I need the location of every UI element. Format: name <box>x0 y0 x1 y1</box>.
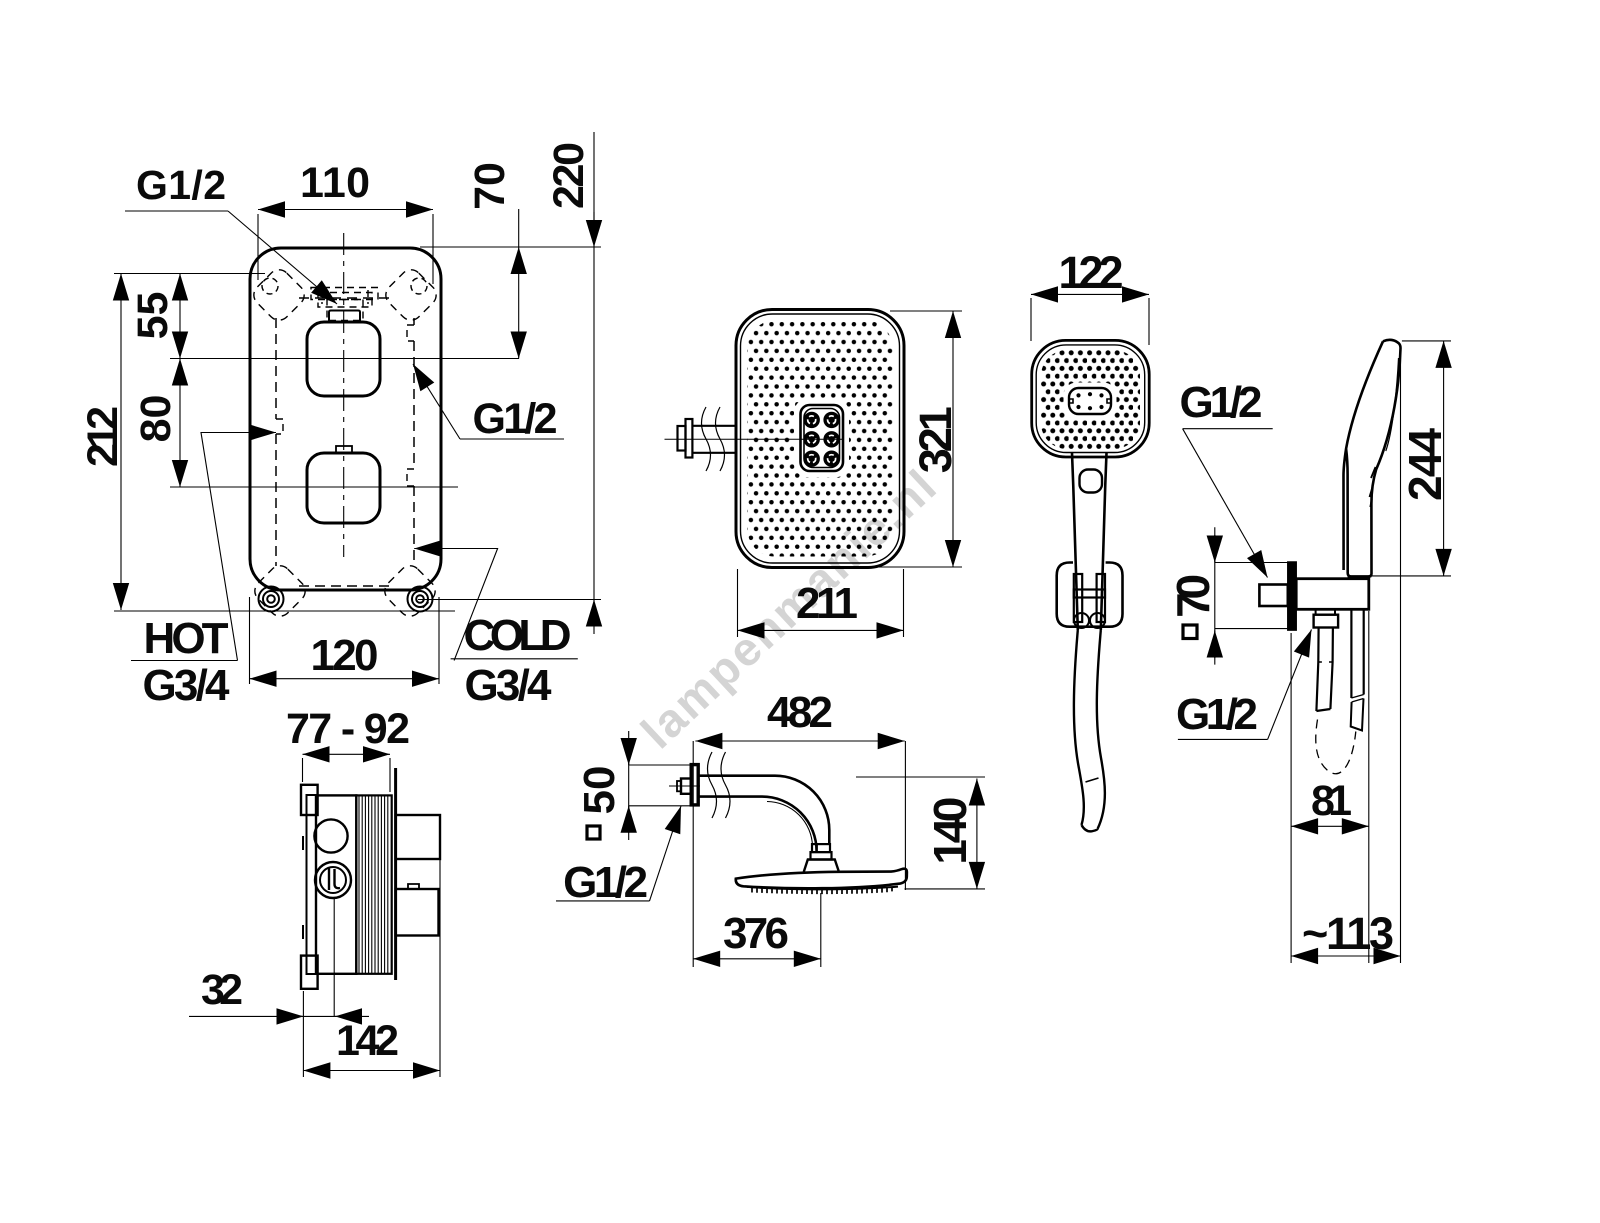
hand shower center plate <box>1069 388 1111 414</box>
wall stem F <box>1259 585 1287 607</box>
connector neck <box>329 311 360 323</box>
in-wall box dashed left edge <box>275 318 277 566</box>
knob 2 (lower) <box>307 453 380 523</box>
underline HOT <box>131 660 238 662</box>
mounting tab bottom <box>301 956 318 989</box>
wall plane line <box>394 768 397 980</box>
stub2 lower <box>1351 699 1364 731</box>
svg-text:211: 211 <box>796 579 858 628</box>
holder bracket <box>1057 563 1123 627</box>
arm nut <box>681 779 691 794</box>
leader G1/2 lower F <box>1178 738 1268 740</box>
knob 1 (upper) <box>307 322 380 396</box>
svg-text:G1/2: G1/2 <box>1176 690 1258 739</box>
svg-text:G1/2: G1/2 <box>473 395 558 443</box>
gusset bottom-right <box>380 561 439 620</box>
stub2 joint <box>1351 695 1363 703</box>
gusset bottom-left <box>250 561 309 620</box>
foot right <box>408 587 433 612</box>
head plate inner line <box>741 314 900 563</box>
dim 321 <box>952 311 954 567</box>
dim 220 <box>593 132 595 612</box>
outlet stub upper <box>396 815 440 859</box>
svg-text:G3/4: G3/4 <box>143 661 231 710</box>
ext line panel bottom right <box>418 599 601 601</box>
valve plate ticks <box>302 836 304 939</box>
handle side view <box>1343 340 1400 577</box>
svg-text:110: 110 <box>300 159 370 207</box>
leader G1/2 upper F <box>1183 428 1273 430</box>
left edge notch <box>276 419 283 434</box>
svg-text:142: 142 <box>336 1017 399 1065</box>
ext 482/376 left <box>692 741 694 967</box>
centerline vertical <box>343 233 345 557</box>
svg-text:COLD: COLD <box>464 611 572 660</box>
knob 2 top tab <box>336 446 352 453</box>
inlet flange <box>686 419 693 458</box>
hand shower face dots <box>1041 350 1140 449</box>
clamp rollers <box>1074 613 1089 628</box>
inlet screw <box>678 426 686 451</box>
arm tube <box>698 776 829 852</box>
dim 142 <box>303 1070 440 1072</box>
plate clear margin <box>794 399 849 478</box>
wall flange F <box>1288 562 1296 630</box>
right edge notch lower <box>407 469 414 486</box>
dim 120 <box>250 678 440 680</box>
center plate <box>801 405 844 471</box>
svg-text:55: 55 <box>129 292 177 340</box>
leader G1/2 top <box>125 210 228 212</box>
in-wall box dashed right edge <box>413 318 415 566</box>
hand shower head outline <box>1032 340 1150 457</box>
svg-text:482: 482 <box>767 688 833 737</box>
handle bottom cap <box>1348 576 1372 579</box>
hand shower plate clear margin <box>1064 383 1117 420</box>
head body side view <box>736 869 907 889</box>
dim 81 <box>1291 825 1369 827</box>
svg-text:32: 32 <box>201 966 243 1014</box>
svg-text:G1/2: G1/2 <box>1180 378 1263 427</box>
hose joint tick <box>1086 778 1099 782</box>
ext line top left <box>114 273 265 275</box>
handle lever notch <box>1370 467 1376 507</box>
ext line block right <box>1368 611 1370 963</box>
ext line bottom left <box>114 610 455 612</box>
svg-text:G1/2: G1/2 <box>563 858 648 907</box>
spray face dots <box>748 321 893 557</box>
dim 211 <box>738 629 904 631</box>
holder clamp <box>1074 574 1082 622</box>
dim 80 <box>179 359 181 488</box>
screw hole top-left <box>262 278 278 294</box>
break squiggles <box>702 407 725 471</box>
mounting tab top <box>301 785 318 815</box>
square symbol 50 <box>587 826 600 839</box>
G1/2 connector dashed stack <box>311 288 378 321</box>
arm centerline <box>669 785 700 787</box>
centerline horizontal <box>665 438 843 440</box>
svg-text:80: 80 <box>132 395 180 443</box>
dim 122 <box>1031 293 1149 295</box>
dim 77-92 <box>303 753 391 755</box>
wall escutcheon <box>691 765 698 805</box>
svg-text:212: 212 <box>79 406 127 467</box>
in-wall box dashed bottom edge <box>299 585 391 587</box>
screw slot <box>329 869 340 891</box>
valve housing <box>316 795 356 973</box>
dim 482 <box>695 740 904 742</box>
dim 212 <box>120 274 122 611</box>
holder block F <box>1296 579 1369 610</box>
ext line handle tip <box>1400 346 1402 963</box>
dim ~113 <box>1291 955 1400 957</box>
square symbol 70 <box>1183 625 1197 639</box>
plate jets <box>1076 392 1103 410</box>
handle <box>1072 453 1107 630</box>
head connector rings <box>812 844 830 852</box>
dim 140 <box>976 779 978 889</box>
stub2 hose <box>1351 609 1363 698</box>
ext line knob1 center <box>170 358 519 360</box>
svg-text:376: 376 <box>723 909 789 958</box>
foot left <box>259 587 284 612</box>
ext line panel top right <box>420 246 601 248</box>
svg-text:244: 244 <box>1399 428 1451 501</box>
svg-text:G3/4: G3/4 <box>465 661 553 710</box>
svg-text:81: 81 <box>1311 777 1352 825</box>
svg-text:220: 220 <box>545 142 593 209</box>
head inner line <box>1036 345 1145 453</box>
svg-text:321: 321 <box>910 406 961 473</box>
plate side notches <box>1069 399 1111 403</box>
break squiggles arm <box>708 752 731 818</box>
gusset top-right <box>381 265 440 324</box>
dim 32 <box>189 1015 369 1017</box>
dim 70 (panel) <box>518 209 520 247</box>
gusset top-left <box>249 265 308 324</box>
leader G1/2 arm <box>556 900 650 902</box>
ext line flange left <box>1290 633 1292 963</box>
svg-text:~113: ~113 <box>1302 908 1394 959</box>
hose loop dashed <box>1316 720 1356 774</box>
panel plate outline <box>250 248 441 590</box>
svg-text:70: 70 <box>1167 574 1219 618</box>
port circle with screw <box>315 862 351 898</box>
leader G1/2 right <box>460 438 564 440</box>
ext line knob2 center <box>170 486 458 488</box>
svg-text:120: 120 <box>311 631 379 680</box>
in-wall box dashed top edge <box>299 297 391 299</box>
threaded section <box>359 796 388 974</box>
valve plate <box>307 795 317 974</box>
svg-text:G1/2: G1/2 <box>136 162 226 208</box>
head plate outline <box>736 310 904 568</box>
svg-text:70: 70 <box>466 162 514 210</box>
port circle plain <box>314 819 347 852</box>
inlet shaft <box>692 426 737 453</box>
leader COLD <box>440 549 498 661</box>
dim 244 <box>1443 341 1445 576</box>
plate inner line <box>804 409 840 468</box>
svg-text:50: 50 <box>575 766 624 815</box>
leader HOT <box>201 433 250 661</box>
dim 55 <box>179 274 181 359</box>
right edge notch upper <box>407 325 414 341</box>
arm nut cap <box>677 781 681 791</box>
dim 376 <box>693 958 821 960</box>
arm tube inner line <box>767 802 813 847</box>
head mount <box>804 860 839 872</box>
outlet stub lower <box>396 889 439 936</box>
stub lower top tab <box>408 884 419 889</box>
ext 482 right <box>904 741 906 890</box>
dim sq50 <box>628 731 630 840</box>
screw hole top-right <box>411 278 427 294</box>
handle inner line <box>1386 358 1399 451</box>
svg-text:140: 140 <box>924 797 976 865</box>
svg-text:122: 122 <box>1059 247 1124 298</box>
stub1 step <box>1318 661 1332 663</box>
dim 110 <box>258 209 433 211</box>
stub1 tube <box>1316 628 1333 712</box>
svg-text:77 - 92: 77 - 92 <box>286 705 410 753</box>
threaded section frame <box>356 795 391 973</box>
head spray serration <box>747 887 898 890</box>
stub1 nut <box>1316 609 1335 614</box>
bolts <box>804 412 840 467</box>
circle2 center line <box>333 898 335 1016</box>
svg-text:HOT: HOT <box>144 614 229 663</box>
dim sq70 <box>1214 527 1216 664</box>
handle button <box>1080 470 1103 493</box>
underline COLD <box>451 658 578 660</box>
hose E <box>1074 630 1105 831</box>
